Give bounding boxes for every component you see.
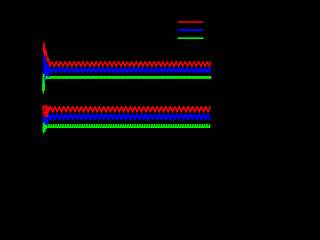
bottom blue blob texture: [44, 115, 46, 119]
bottom red trace: [47, 107, 210, 117]
bottom red transient blob: [42, 105, 47, 114]
top blue transient bar: [43, 54, 45, 75]
top blue trace: [46, 63, 210, 77]
bottom green transient bar: [43, 121, 45, 134]
bottom red blob texture: [43, 106, 46, 112]
bottom green trace: [43, 124, 46, 132]
top green trace: [43, 75, 210, 90]
top red trace: [45, 50, 210, 66]
legend line green: [178, 37, 204, 39]
legend line blue: [178, 29, 204, 31]
top red transient spike: [43, 42, 46, 55]
top green transient bar: [43, 73, 45, 94]
legend line red: [178, 21, 204, 23]
bottom blue trace: [46, 114, 210, 124]
bottom blue transient blob: [43, 115, 47, 123]
